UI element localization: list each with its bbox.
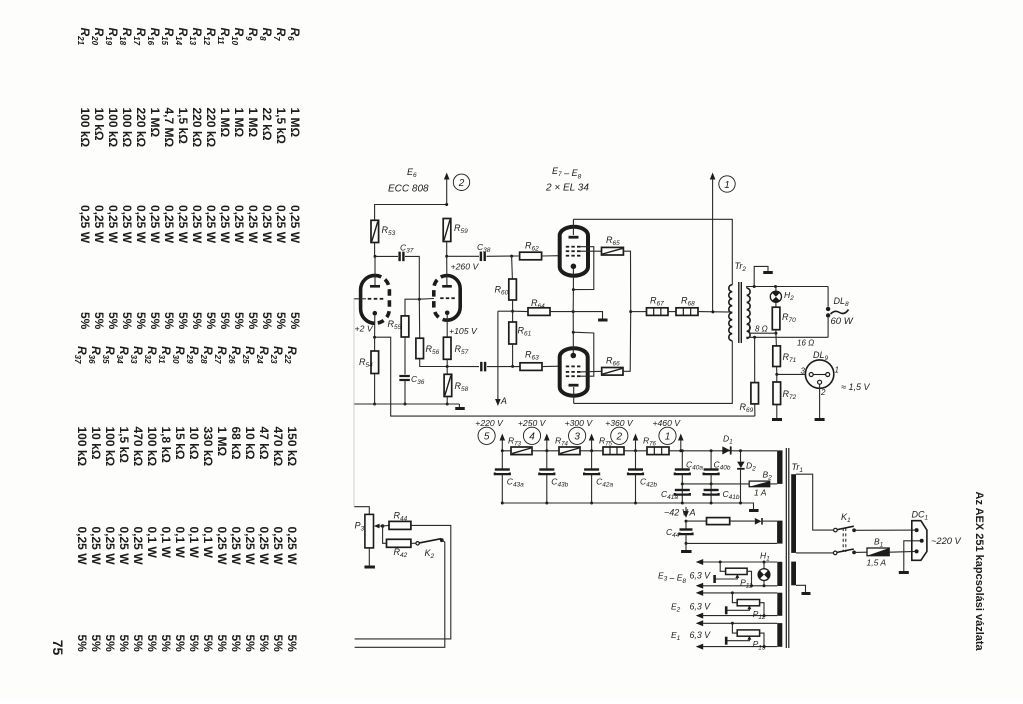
EL34 upper suppressor loop: [573, 247, 593, 290]
svg-text:5%: 5%: [190, 312, 204, 330]
table row R24 (group 2): [255, 346, 271, 652]
svg-text:5%: 5%: [134, 312, 148, 330]
table row R31 (group 2): [157, 346, 173, 652]
table row R13 (group 1): [188, 28, 204, 330]
wire B1 to DC1 pin3: [889, 550, 916, 553]
table row R9 (group 1): [244, 28, 260, 330]
resistor R54: [374, 337, 376, 351]
svg-text:5%: 5%: [229, 635, 243, 653]
svg-text:5%: 5%: [148, 312, 162, 330]
junction C40a/C41a mid: [681, 482, 684, 485]
table row R35 (group 2): [101, 346, 117, 652]
svg-text:A: A: [689, 508, 696, 518]
svg-text:0,25 W: 0,25 W: [190, 205, 204, 244]
svg-text:5%: 5%: [120, 312, 134, 330]
EL34 upper grids: [566, 246, 569, 248]
table row R12 (group 1): [202, 28, 218, 330]
junction pot 12 bottom: [763, 614, 766, 617]
junction supply line / center tap: [711, 310, 714, 313]
Tr1 bias winding: [777, 521, 782, 544]
PSU bottom rail: [502, 502, 740, 504]
Tr1 heater winding E1: [777, 623, 782, 647]
Tr1 heater winding E3-E8: [777, 562, 782, 586]
svg-text:5%: 5%: [92, 312, 106, 330]
svg-text:5%: 5%: [145, 635, 159, 653]
pot 13 wiper: [747, 636, 751, 640]
capacitor C40b: [710, 451, 712, 470]
svg-text:5%: 5%: [159, 635, 173, 653]
speaker terminals DL8: [827, 287, 829, 307]
resistor R68: [668, 311, 676, 313]
junction H2 top: [774, 285, 777, 288]
svg-text:68 kΩ: 68 kΩ: [229, 427, 243, 460]
Tr1 core: [785, 448, 787, 648]
junction C40a top: [681, 449, 684, 452]
svg-text:0,25 W: 0,25 W: [89, 527, 103, 566]
table row R23 (group 2): [269, 346, 285, 652]
table row R8 (group 1): [258, 28, 274, 330]
svg-text:5: 5: [484, 432, 490, 443]
diode D2: [740, 451, 742, 462]
svg-text:0,25 W: 0,25 W: [285, 527, 299, 566]
svg-text:0,25 W: 0,25 W: [271, 527, 285, 566]
table row R17 (group 1): [132, 28, 148, 330]
K1 lower contact: [833, 551, 837, 555]
potentiometer P3: [354, 507, 369, 515]
V2 cathode: [445, 311, 450, 316]
wire R56 bottom to phase node: [420, 359, 448, 367]
capacitor C43a: [501, 451, 503, 470]
resistor R62: [520, 252, 542, 260]
svg-text:5%: 5%: [187, 635, 201, 653]
wire K2 loop: [355, 540, 445, 647]
junction R57 bottom: [446, 359, 448, 366]
resistor R59: [443, 219, 451, 242]
svg-text:0,25 W: 0,25 W: [229, 527, 243, 566]
junction V1 cathode feedback node: [373, 336, 376, 339]
svg-text:1,5 kΩ: 1,5 kΩ: [274, 108, 288, 145]
junction R60 bottom / R64 node: [512, 300, 514, 311]
junction C36 ground rail: [404, 403, 407, 406]
svg-text:5%: 5%: [218, 312, 232, 330]
svg-text:+460 V: +460 V: [653, 418, 682, 428]
svg-text:+260 V: +260 V: [451, 262, 480, 272]
svg-text:ECC 808: ECC 808: [388, 184, 429, 195]
junction R58 ground rail: [446, 403, 449, 406]
svg-text:0,1 W: 0,1 W: [159, 527, 173, 559]
table row R22 (group 2): [283, 346, 299, 652]
svg-text:1 MΩ: 1 MΩ: [215, 427, 229, 457]
svg-text:0,1 W: 0,1 W: [187, 527, 201, 559]
triode V2 (ECC808 b): [434, 276, 447, 321]
capacitor C40a: [681, 451, 683, 470]
svg-text:10 kΩ: 10 kΩ: [243, 427, 257, 460]
svg-text:5%: 5%: [201, 635, 215, 653]
resistor R65: [602, 247, 624, 255]
Tr2 core: [738, 282, 740, 343]
wire HT top rail R53-R59: [375, 205, 447, 221]
table row R29 (group 2): [185, 346, 201, 652]
primary bottom wire to K1: [796, 552, 834, 554]
junction V2 grid: [418, 298, 421, 301]
mid line C40/C41 to fuse B2: [682, 483, 749, 485]
P3 ground: [368, 548, 370, 566]
svg-text:0,25 W: 0,25 W: [232, 205, 246, 244]
V2 anode: [442, 285, 452, 288]
svg-text:0,25 W: 0,25 W: [117, 527, 131, 566]
terminal circle 4: [523, 427, 540, 444]
bias diode: [730, 520, 755, 522]
shield winding ground: [796, 585, 806, 592]
svg-text:220 kΩ: 220 kΩ: [204, 108, 218, 148]
terminal circle 1: [719, 176, 735, 192]
svg-text:0,25 W: 0,25 W: [131, 527, 145, 566]
junction 8ohm tap node: [775, 330, 777, 334]
resistor R56: [418, 299, 420, 338]
svg-text:220 kΩ: 220 kΩ: [190, 108, 204, 148]
svg-text:5%: 5%: [274, 312, 288, 330]
junction rail x=546.8: [545, 449, 548, 452]
svg-text:0,25 W: 0,25 W: [218, 205, 232, 244]
wire R44 right loop: [355, 525, 451, 639]
feedback line to V1 cathode: [375, 337, 755, 416]
svg-text:5%: 5%: [271, 635, 285, 653]
svg-text:+2 V: +2 V: [355, 324, 374, 334]
svg-text:5%: 5%: [243, 635, 257, 653]
pot 12 wiper: [747, 605, 751, 609]
input stub line (faint): [353, 299, 355, 507]
svg-text:1,8 kΩ: 1,8 kΩ: [159, 427, 173, 464]
svg-text:5%: 5%: [103, 635, 117, 653]
capacitor C36: [404, 337, 406, 375]
svg-text:1: 1: [724, 180, 730, 191]
diode D1: [722, 446, 730, 454]
EL34 lower suppressor loop: [573, 332, 594, 376]
node 1 supply arrow: [710, 173, 716, 180]
connector DC1 outline: [912, 521, 927, 561]
svg-text:Az AEX 251 kapcsolási vázlata: Az AEX 251 kapcsolási vázlata: [973, 492, 985, 652]
svg-text:5%: 5%: [75, 635, 89, 653]
svg-text:4,7 MΩ: 4,7 MΩ: [162, 108, 176, 148]
svg-text:6,3 V: 6,3 V: [690, 630, 712, 640]
ground at PSU rail end: [741, 503, 754, 510]
table row R21 (group 1): [76, 28, 92, 330]
fuse B1: [854, 551, 867, 553]
junction anode V2: [445, 255, 448, 258]
pot 11 right lead: [747, 571, 751, 585]
table row R10 (group 1): [230, 28, 246, 330]
capacitor C39 (coupling, lower): [447, 366, 479, 368]
svg-text:0,25 W: 0,25 W: [260, 205, 274, 244]
A feed arrow: [683, 511, 689, 518]
connector DL9: [805, 360, 833, 388]
svg-text:150 kΩ: 150 kΩ: [285, 427, 299, 467]
pot 13 right lead: [760, 633, 764, 647]
terminal circle 2: [453, 174, 469, 190]
svg-text:0,25 W: 0,25 W: [204, 205, 218, 244]
junction R69 top: [753, 336, 756, 339]
heater winding E2 bottom wire: [696, 613, 704, 619]
svg-text:47 kΩ: 47 kΩ: [257, 427, 271, 460]
V1 cathode: [373, 311, 378, 316]
svg-text:15 kΩ: 15 kΩ: [173, 427, 187, 460]
potentiometer P11: [720, 562, 725, 571]
table row R19 (group 1): [104, 28, 120, 330]
svg-text:5%: 5%: [288, 312, 302, 330]
V1 anode: [370, 285, 380, 288]
svg-text:+220 V: +220 V: [475, 418, 504, 428]
resistor R71: [775, 333, 778, 346]
Tr1 HV winding: [777, 450, 782, 484]
wire 8 ohm tap: [747, 325, 776, 334]
resistor R61: [512, 311, 514, 322]
K1 lower arm: [837, 549, 854, 552]
PSU top rail: [502, 450, 740, 452]
svg-text:100 kΩ: 100 kΩ: [106, 108, 120, 148]
wire R63 to EL34b grid: [542, 365, 560, 367]
resistor R73: [511, 447, 532, 455]
svg-text:0,25 W: 0,25 W: [134, 205, 148, 244]
resistor R64: [513, 310, 528, 312]
junction EL34 cathode node: [572, 310, 575, 313]
svg-text:5%: 5%: [173, 635, 187, 653]
svg-text:0,25 W: 0,25 W: [162, 205, 176, 244]
svg-text:1,5 kΩ: 1,5 kΩ: [117, 427, 131, 464]
potentiometer P13: [732, 623, 737, 633]
svg-text:100 kΩ: 100 kΩ: [75, 427, 89, 467]
wire R68 to Tr2 center tap: [698, 311, 732, 314]
junction rail x=591.6: [590, 449, 593, 452]
svg-text:2: 2: [616, 432, 623, 443]
svg-text:0,25 W: 0,25 W: [148, 205, 162, 244]
capacitor C38: [447, 255, 479, 257]
svg-text:8 Ω: 8 Ω: [755, 325, 768, 334]
svg-text:3: 3: [574, 432, 580, 443]
junction rail x=502.3: [501, 449, 504, 452]
wire C39 to R63: [487, 366, 520, 368]
table row R14 (group 1): [174, 28, 190, 330]
junction upper cathode: [572, 288, 575, 291]
wire upper anode to Tr2 primary top: [573, 219, 732, 284]
svg-text:5%: 5%: [257, 635, 271, 653]
svg-text:0,25 W: 0,25 W: [75, 527, 89, 566]
resistor R58: [446, 367, 448, 375]
svg-text:0,25 W: 0,25 W: [176, 205, 190, 244]
pot 12 right lead: [760, 603, 764, 616]
svg-text:10 kΩ: 10 kΩ: [92, 108, 106, 141]
svg-text:5%: 5%: [260, 312, 274, 330]
svg-text:+360 V: +360 V: [605, 418, 634, 428]
EL34 lower grids: [566, 365, 569, 367]
ground symbol preamp rail: [458, 404, 460, 409]
pentode EL34 lower: [560, 348, 588, 396]
table row R20 (group 1): [90, 28, 106, 330]
supply tap arrows: [500, 434, 506, 441]
junction lower cathode: [572, 331, 575, 334]
svg-text:0,1 W: 0,1 W: [201, 527, 215, 559]
resistor R72: [776, 374, 778, 382]
svg-text:0,25 W: 0,25 W: [243, 527, 257, 566]
heater winding E1 top wire: [696, 620, 704, 626]
svg-text:100 kΩ: 100 kΩ: [103, 427, 117, 467]
junction -42V node: [685, 520, 688, 523]
svg-text:1 MΩ: 1 MΩ: [232, 108, 246, 138]
svg-text:220 kΩ: 220 kΩ: [134, 108, 148, 148]
Tr1 primary winding: [791, 474, 796, 553]
svg-text:5%: 5%: [285, 635, 299, 653]
svg-text:6,3 V: 6,3 V: [690, 602, 712, 612]
DL9 pin2 lead to ground: [819, 384, 821, 419]
svg-text:22 kΩ: 22 kΩ: [260, 108, 274, 141]
svg-text:+105 V: +105 V: [449, 326, 478, 336]
ground stub at cathode node: [573, 312, 602, 319]
wire R66 right up to screen node: [623, 312, 631, 372]
svg-text:2 × EL 34: 2 × EL 34: [545, 183, 589, 194]
capacitor C44: [685, 521, 687, 530]
svg-text:10 kΩ: 10 kΩ: [89, 427, 103, 460]
table row R37 (group 2): [73, 346, 89, 652]
resistor R75: [603, 447, 624, 455]
resistor R42: [383, 526, 387, 543]
svg-text:3: 3: [801, 367, 806, 376]
table row R11 (group 1): [216, 28, 232, 330]
svg-text:75: 75: [50, 640, 66, 656]
svg-text:≈ 1,5 V: ≈ 1,5 V: [841, 382, 870, 392]
svg-text:0,25 W: 0,25 W: [257, 527, 271, 566]
heater winding E3-E8 bottom wire: [696, 583, 704, 589]
junction DL9 pin3 node: [776, 367, 778, 375]
table row R33 (group 2): [129, 346, 145, 652]
junction R60 top: [510, 255, 513, 258]
resistor R53: [371, 220, 379, 242]
svg-text:5%: 5%: [162, 312, 176, 330]
EL34 upper cathode: [571, 264, 577, 270]
svg-text:5%: 5%: [106, 312, 120, 330]
preamp ground rail: [354, 403, 460, 405]
svg-text:1,5 kΩ: 1,5 kΩ: [176, 108, 190, 145]
svg-text:1 MΩ: 1 MΩ: [148, 108, 162, 138]
svg-text:100 kΩ: 100 kΩ: [78, 108, 92, 148]
svg-text:~220 V: ~220 V: [931, 536, 962, 546]
EL34 lower screen wire to R66: [580, 370, 602, 373]
resistor R66: [602, 368, 623, 376]
node 2 supply arrow: [444, 173, 450, 180]
svg-text:60 W: 60 W: [831, 316, 854, 327]
primary top wire to K1: [796, 474, 834, 530]
wire R62 to EL34a grid: [542, 255, 560, 257]
table row R34 (group 2): [115, 346, 131, 652]
heater winding E3-E8 top wire: [696, 559, 704, 565]
wire R65 right down to screen node: [623, 251, 630, 311]
wire R69 to feedback line: [754, 404, 756, 416]
svg-text:0,25 W: 0,25 W: [246, 205, 260, 244]
svg-text:1 MΩ: 1 MΩ: [218, 108, 232, 138]
wire C38 to R62: [487, 255, 519, 257]
svg-text:+250 V: +250 V: [518, 418, 547, 428]
svg-text:2: 2: [820, 388, 826, 397]
svg-text:0,1 W: 0,1 W: [173, 527, 187, 559]
V1 grid: [368, 298, 372, 300]
switch K2: [411, 542, 416, 544]
svg-text:330 kΩ: 330 kΩ: [201, 427, 215, 467]
svg-text:5%: 5%: [78, 312, 92, 330]
svg-text:5%: 5%: [176, 312, 190, 330]
EL34 lower cathode: [571, 353, 577, 359]
svg-text:1: 1: [665, 432, 671, 443]
table row R16 (group 1): [146, 28, 162, 330]
svg-text:0,25 W: 0,25 W: [78, 205, 92, 244]
junction pot 12 top: [731, 591, 734, 594]
wire B2 to Tr1 HV bottom: [770, 483, 777, 485]
wiper terminal bar 13: [725, 637, 728, 645]
Tr2 secondary coil: [747, 288, 750, 338]
junction at R59 top: [445, 203, 448, 206]
K1 upper arm: [837, 526, 854, 529]
wire R53 bottom to anode node: [374, 243, 376, 257]
wiper terminal bar 11: [713, 575, 716, 583]
svg-text:A: A: [500, 396, 507, 406]
svg-text:0,1 W: 0,1 W: [145, 527, 159, 559]
resistor R67: [631, 311, 647, 313]
triode V1 (ECC808 a): [361, 275, 375, 323]
terminal circle 3: [569, 427, 586, 444]
junction anode V1: [374, 255, 377, 258]
svg-text:5%: 5%: [117, 635, 131, 653]
K1 gang dashes: [842, 528, 844, 552]
junction pot 13 bottom: [763, 645, 766, 648]
EL34 upper anode: [569, 236, 579, 239]
svg-text:1 A: 1 A: [754, 488, 767, 498]
terminal circle 5: [478, 427, 495, 444]
svg-text:1 MΩ: 1 MΩ: [246, 108, 260, 138]
table row R6 (group 1): [286, 28, 302, 330]
junction pot 11 bottom: [750, 584, 753, 587]
EL34 upper screen wire to R65: [580, 250, 602, 252]
wire K1 to DC1 pin1: [854, 529, 917, 531]
svg-text:16 Ω: 16 Ω: [797, 339, 814, 348]
junction C40b top: [710, 449, 713, 452]
junction K1 lower: [852, 551, 856, 555]
junction rail x=635.5: [634, 449, 637, 452]
wire lower anode to Tr2 primary bottom: [574, 341, 733, 404]
wiper terminal bar 12: [725, 606, 728, 614]
capacitor C41a: [675, 489, 690, 491]
svg-text:10 kΩ: 10 kΩ: [187, 427, 201, 460]
V2 grid: [440, 297, 443, 299]
ground symbol secondary: [754, 266, 768, 286]
svg-text:0,25 W: 0,25 W: [120, 205, 134, 244]
capacitor C37: [375, 255, 398, 257]
A bias line with down arrow: [495, 399, 501, 406]
svg-text:5%: 5%: [215, 635, 229, 653]
wire C37 to V2 grid node: [405, 256, 419, 299]
DC1 pins: [915, 528, 919, 532]
wire secondary bottom (16 ohm): [747, 337, 828, 338]
table row R26 (group 2): [227, 346, 243, 652]
P3 wiper arrow: [374, 524, 380, 529]
table row R36 (group 2): [87, 346, 103, 652]
pot 11 wiper: [735, 574, 739, 578]
resistor R57: [443, 337, 451, 359]
wire to DL9: [777, 373, 806, 375]
table row R15 (group 1): [160, 28, 176, 330]
resistor R69: [754, 337, 756, 382]
svg-text:2: 2: [458, 178, 465, 189]
svg-text:470 kΩ: 470 kΩ: [271, 427, 285, 467]
terminal circle 2: [611, 427, 628, 444]
terminal circle 1: [659, 427, 676, 444]
svg-text:0,25 W: 0,25 W: [288, 205, 302, 244]
